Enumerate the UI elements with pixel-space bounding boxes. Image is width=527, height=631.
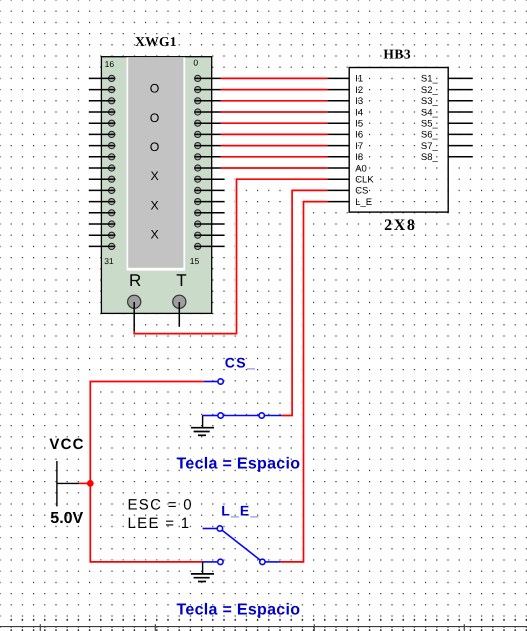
junction dot on VCC rail — [87, 480, 94, 487]
svg-text:I3: I3 — [355, 96, 363, 107]
hierarchical block HB3 box — [349, 68, 448, 213]
ground (CS_ switch) — [191, 416, 214, 436]
XWG1 T terminal (stub unconnected) — [173, 295, 186, 327]
svg-text:I2: I2 — [355, 85, 363, 96]
svg-text:I1: I1 — [355, 74, 363, 85]
svg-text:5.0V: 5.0V — [50, 510, 83, 527]
svg-text:16: 16 — [105, 59, 115, 69]
XWG1 pattern symbols O O O X X X — [150, 82, 160, 242]
svg-text:S6_: S6_ — [421, 130, 439, 141]
svg-text:CS_: CS_ — [225, 355, 257, 371]
svg-text:I5: I5 — [355, 119, 363, 130]
wire XWG1 pin 2 to HB3 I3 — [221, 99, 328, 102]
svg-text:R: R — [129, 271, 141, 290]
wire XWG1 pin 3 to HB3 I4 — [221, 111, 328, 114]
HB3 input pin stubs — [327, 78, 349, 201]
svg-text:O: O — [150, 111, 160, 125]
svg-text:CLK: CLK — [355, 175, 374, 186]
svg-text:0: 0 — [193, 58, 198, 68]
wire XWG1 pin 7 to HB3 I8 — [221, 155, 328, 158]
HB3 output pin labels S1_-S8_ — [421, 74, 439, 163]
svg-text:XWG1: XWG1 — [135, 34, 177, 49]
XWG1 R terminal — [128, 295, 141, 331]
svg-text:O: O — [150, 82, 160, 96]
svg-text:15: 15 — [190, 256, 200, 266]
switch L_E_ (SPDT, key=space): blade closed to top throw — [202, 526, 280, 565]
svg-text:LEE = 1: LEE = 1 — [128, 515, 191, 532]
XWG1 left pins 16..31 with wire stubs — [89, 75, 116, 249]
svg-text:I8: I8 — [355, 152, 363, 163]
word generator XWG1 body — [101, 57, 211, 314]
ground (L_E_ switch) — [191, 562, 214, 582]
svg-text:X: X — [150, 169, 158, 183]
svg-text:S8_: S8_ — [421, 152, 439, 163]
svg-text:X: X — [150, 198, 158, 212]
svg-text:T: T — [176, 271, 186, 290]
svg-text:Tecla = Espacio: Tecla = Espacio — [177, 601, 301, 618]
sheet border bottom ruler — [0, 620, 527, 631]
XWG1 right pins 0..15 with wire stubs — [194, 75, 224, 249]
wire XWG1 pin 4 to HB3 I5 — [221, 122, 328, 125]
wire VCC to rail — [79, 482, 90, 484]
svg-text:S5_: S5_ — [421, 119, 439, 130]
wire XWG1 pin 0 to HB3 I1 — [221, 77, 328, 80]
HB3 input pin labels I1-I8 A0 CLK CS L_E — [355, 74, 374, 208]
svg-text:I6: I6 — [355, 130, 363, 141]
svg-text:X: X — [150, 228, 158, 242]
svg-text:I7: I7 — [355, 141, 363, 152]
wire L_E_ switch pole to HB3 L_E — [280, 202, 327, 562]
switch CS_ (SPDT, key=space): throws left, pole right, closed to ground — [202, 379, 281, 418]
svg-text:L_E: L_E — [355, 197, 372, 208]
svg-text:A0: A0 — [355, 163, 367, 174]
VCC source symbol — [57, 461, 79, 506]
svg-text:S1_: S1_ — [421, 74, 439, 85]
wire VCC rail: CS_ switch top throw down to L_E_ switch bottom throw — [90, 382, 204, 562]
svg-text:ESC = 0: ESC = 0 — [128, 496, 193, 513]
wire XWG1 pin 5 to HB3 I6 — [221, 133, 328, 136]
wire R terminal to HB3 CLK — [134, 179, 327, 333]
svg-text:L_E_: L_E_ — [221, 502, 259, 518]
svg-text:CS: CS — [355, 186, 368, 197]
wire CS_ switch pole to HB3 CS — [282, 190, 328, 415]
svg-text:31: 31 — [104, 256, 114, 266]
svg-text:S3_: S3_ — [421, 96, 439, 107]
wire XWG1 pin 6 to HB3 I7 — [221, 144, 328, 147]
svg-text:S4_: S4_ — [421, 107, 439, 118]
svg-text:O: O — [150, 140, 160, 154]
svg-text:2X8: 2X8 — [384, 217, 416, 234]
wire XWG1 pin 8 to HB3 A0 — [221, 167, 328, 170]
svg-text:HB3: HB3 — [383, 47, 411, 62]
svg-text:S2_: S2_ — [421, 85, 439, 96]
wire XWG1 pin 1 to HB3 I2 — [221, 88, 328, 91]
HB3 output wires S1_-S8_ — [448, 78, 473, 156]
svg-text:S7_: S7_ — [421, 141, 439, 152]
svg-text:VCC: VCC — [49, 436, 84, 453]
svg-text:I4: I4 — [355, 107, 363, 118]
svg-text:Tecla = Espacio: Tecla = Espacio — [177, 455, 301, 472]
